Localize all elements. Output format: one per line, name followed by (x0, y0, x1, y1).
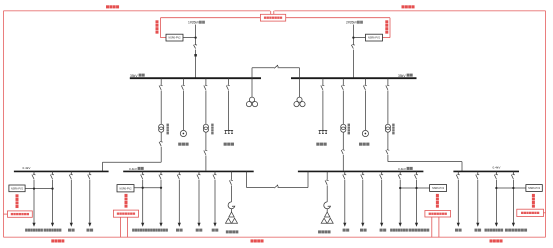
wire relay U1 to line (183, 37, 196, 39)
wire fiber switch to left relay (161, 18, 261, 38)
bus 0.4kV far-right panel (453, 170, 519, 172)
transformer T4 (385, 124, 390, 132)
wire relay U6 to feeders (496, 187, 526, 189)
label 3#LV compensation (132, 229, 150, 232)
wire fiber switch far-right to ring (544, 212, 546, 214)
label capacitor (bus I) (224, 143, 234, 146)
arrow far-right x=477.8 (476, 223, 479, 227)
fiber switch box far-left (8, 211, 33, 217)
arrow 0.4kV-II x=400.2 (399, 223, 402, 227)
feeder wire far-right x=496.4 (495, 171, 497, 223)
bus tie disconnector (274, 65, 278, 68)
feeder T1 wire upper (160, 78, 162, 124)
disconnector DC-panel left (229, 180, 233, 185)
node incoming1/relay junction (194, 36, 196, 38)
arrow far-right x=513.4 (512, 223, 515, 227)
svg-text:2#35kV: 2#35kV (346, 21, 358, 25)
feeder wire DC-panel left (231, 171, 233, 202)
label outgoing FR-1 (455, 229, 462, 232)
PT stem bus II (299, 78, 301, 97)
disconnector 0.4kV-II x=344.8 (343, 174, 347, 179)
wire fiber switch to right relay (286, 18, 390, 38)
feeder PT-cabinet wire (bus I) (182, 78, 184, 130)
label fiber left drop (vertical) (156, 20, 159, 33)
disconnector 0.4kV-II x=416.5 (414, 174, 418, 179)
arrow 0.4kV-II x=416.5 (415, 223, 418, 227)
0.4kV tie disconnector (274, 185, 278, 188)
wire relay U2 to line (353, 37, 365, 39)
bus 0.4kV II (298, 170, 424, 172)
disconnector PT-cabinet (bus II) (363, 85, 367, 90)
label fiber-ring top-left (106, 5, 119, 8)
disconnector far-left out (88, 174, 92, 179)
svg-text:0.4kV: 0.4kV (129, 167, 138, 171)
label bus 35kV II (398, 74, 413, 78)
svg-text:NSR6-PV2: NSR6-PV2 (11, 187, 24, 190)
label fiber drop U3 (vertical) (16, 194, 19, 208)
PT stem bus I (251, 78, 253, 97)
label fiber drop U5 (vertical) (436, 194, 439, 208)
feeder T3 wire upper (342, 78, 344, 124)
disconnector 0.4kV-II x=400.2 (398, 174, 402, 179)
PT (three-winding) bus I (246, 97, 257, 107)
feeder PT-cabinet wire (bus II) (364, 78, 366, 130)
node U3-feeder2 (51, 187, 53, 189)
disconnector 0.4kV-II x=362.8 (361, 174, 365, 179)
incoming line 1 wire (195, 25, 197, 79)
zigzag winding symbol left (226, 212, 238, 223)
bus tie riser left (251, 68, 253, 79)
arrow far-left out (70, 223, 73, 227)
label bus 0.4kV II (398, 167, 413, 171)
inductor curl DC-panel left (228, 202, 235, 209)
label outgoing far-left 1 (68, 229, 75, 232)
disconnector far-right x=513.4 (511, 174, 515, 179)
wire T3 lower + disconnector (341, 132, 345, 170)
label fiber right drop (vertical) (385, 20, 388, 33)
relay U2 incoming 2 (366, 34, 383, 41)
relay U1 incoming 1 (166, 34, 183, 41)
label capacitor (bus II) (316, 143, 326, 146)
feeder wire 0.4kV-I x=179.3 (178, 171, 180, 223)
wire T1 jog to 0.4kV panel bus (103, 162, 162, 171)
disconnector far-right x=477.8 (476, 174, 480, 179)
arrow far-left comp2 (51, 223, 54, 227)
label 1#35kV incoming (188, 21, 205, 25)
label 7#LV compensation (484, 229, 503, 232)
disconnector 0.4kV-I x=199.0 (197, 174, 201, 179)
svg-text:NSR6-PV2: NSR6-PV2 (120, 187, 133, 190)
inductor curl DC-panel right (324, 202, 331, 209)
wire fiber switch far-left to ring (4, 213, 8, 215)
0.4kV tie riser left (246, 171, 248, 187)
node U4-feeder1 (142, 187, 144, 189)
disconnector T3 (341, 85, 345, 90)
bus 35kV I (130, 77, 261, 79)
disconnector capacitor (bus II) (321, 85, 325, 90)
label DC panel right (318, 230, 331, 233)
label 2#LV compensation (44, 229, 62, 232)
feeder wire 0.4kV-II x=400.2 (399, 171, 401, 223)
feeder wire 0.4kV-I x=199.0 (198, 171, 200, 223)
svg-text:NSR6-PV2: NSR6-PV2 (432, 187, 445, 190)
svg-text:35kV: 35kV (130, 74, 138, 78)
disconnector 0.4kV-II x=381.7 (380, 174, 384, 179)
disconnector PT-cabinet (bus I) (181, 85, 185, 90)
arrow 0.4kV-I x=161.0 (159, 223, 162, 227)
disconnector 0.4kV-I x=179.3 (177, 174, 181, 179)
label outgoing I-3 (212, 229, 219, 232)
fiber-ring left line (3, 11, 5, 237)
feeder wire DC-panel right (326, 171, 328, 202)
arrow far-left out (88, 223, 91, 227)
relay U3 far-left panel (9, 185, 25, 192)
transformer T3 (341, 124, 346, 132)
label 2#35kV incoming (346, 21, 363, 25)
label T2 (vertical) (211, 124, 213, 135)
PT (three-winding) bus II (294, 97, 305, 107)
svg-text:NSR6-PV2: NSR6-PV2 (169, 37, 182, 40)
feeder wire 0.4kV-II x=381.7 (381, 171, 383, 223)
label fiber-ring bottom-left (51, 239, 64, 242)
arrow far-left comp1 (32, 223, 35, 227)
feeder wire 0.4kV-II x=362.8 (362, 171, 364, 223)
node U5-feeder1 (399, 187, 401, 189)
svg-text:35kV: 35kV (398, 74, 406, 78)
transformer T2 (203, 124, 208, 132)
transformer T1 (159, 124, 164, 132)
arrow 0.4kV-II x=344.8 (343, 223, 346, 227)
label outgoing FR-2 (475, 229, 482, 232)
label fiber-ring bottom-middle (251, 239, 264, 242)
label 5#LV compensation (390, 229, 408, 232)
label outgoing II-3 (380, 229, 387, 232)
bus 0.4kV far-left panel (14, 170, 109, 172)
wire T2 lower + disconnector (204, 132, 208, 170)
label bus 35kV I (130, 74, 145, 78)
arrow 0.4kV-I x=179.3 (178, 223, 181, 227)
capacitor bank symbol (bus II) (319, 130, 328, 133)
label outgoing I-1 (176, 229, 183, 232)
feeder wire far-left comp1 x=34.0 (33, 171, 35, 223)
node U4-feeder2 (160, 187, 162, 189)
fiber switch box far-right (517, 209, 544, 216)
voltage transformer symbol (bus II) (362, 130, 368, 136)
relay U6 far-right panel (526, 185, 542, 192)
svg-text:0.4kV: 0.4kV (23, 166, 32, 170)
label fiber-ring top-right (402, 5, 415, 8)
node U5-feeder2 (415, 187, 417, 189)
feeder T4 wire upper (387, 78, 389, 124)
arrow 0.4kV-I x=215.0 (213, 223, 216, 227)
arrow 0.4kV-I x=142.7 (141, 223, 144, 227)
label 0.4kV far-left (23, 166, 32, 170)
disconnector capacitor (bus I) (226, 85, 230, 90)
label outgoing far-left 2 (87, 229, 94, 232)
wire relay U4 to feeders (134, 187, 161, 189)
label 0.4kV far-right (493, 165, 502, 169)
0.4kV tie riser right (307, 171, 309, 187)
breaker QF1 incoming 1 (194, 54, 197, 57)
fiber switch box 0.4kV II (425, 211, 451, 218)
node incoming2/relay junction (352, 36, 354, 38)
wire T4 lower + disconnector (386, 132, 390, 161)
capacitor bank symbol (bus I) (225, 130, 234, 133)
disconnector T1 (159, 85, 163, 90)
node U6-feeder2 (512, 187, 514, 189)
label 1#LV compensation (25, 229, 43, 232)
label T3 (vertical) (348, 124, 350, 135)
incoming line 2 wire (352, 25, 354, 79)
feeder wire 0.4kV-I x=215.0 (214, 171, 216, 223)
svg-text:NSR6-PV2: NSR6-PV2 (528, 187, 541, 190)
wire curl to winding right (326, 209, 328, 212)
wire T1 lower + disconnector (159, 132, 163, 162)
feeder wire far-right x=477.8 (477, 171, 479, 223)
arrow far-right x=496.4 (495, 223, 498, 227)
feeder capacitor wire (bus I) (227, 78, 229, 130)
arrow far-right x=458.3 (457, 223, 460, 227)
bus tie horizontal (252, 67, 300, 69)
disconnector T2 (204, 85, 208, 90)
label fiber-ring bottom-right (490, 239, 503, 242)
disconnector far-left comp1 (32, 174, 36, 179)
disconnector DC-panel right (325, 180, 329, 185)
wire fiber switch I to ring (two drops) (120, 217, 127, 237)
fiber-ring top line (4, 10, 546, 12)
feeder wire 0.4kV-II x=416.5 (416, 171, 418, 223)
disconnector far-right x=496.4 (494, 174, 498, 179)
fiber switch box (top center) (260, 14, 285, 21)
feeder wire far-left comp2 x=52.5 (52, 171, 54, 223)
label outgoing I-2 (196, 229, 203, 232)
wire relay U3 to feeders (25, 188, 52, 190)
svg-text:0.4kV: 0.4kV (493, 165, 502, 169)
bus 35kV II (291, 77, 417, 79)
feeder T2 wire upper (205, 78, 207, 124)
arrow 0.4kV-II x=362.8 (361, 223, 364, 227)
bus tie riser right (299, 68, 301, 79)
disconnector T4 (386, 85, 390, 90)
wire curl to winding left (231, 209, 233, 212)
feeder wire far-right x=458.3 (457, 171, 459, 223)
feeder wire 0.4kV-I x=161.0 (160, 171, 162, 223)
svg-text:NSR6-PV2: NSR6-PV2 (368, 37, 381, 40)
label T4 (vertical) (392, 124, 394, 135)
label T1 (vertical) (167, 124, 169, 135)
label PT-cabinet (bus I) (178, 143, 188, 146)
0.4kV tie horizontal (247, 187, 309, 189)
disconnector 0.4kV-I x=161.0 (159, 174, 163, 179)
disconnector far-left comp2 (50, 174, 54, 179)
zigzag winding symbol right (321, 212, 333, 223)
feeder wire 0.4kV-II x=344.8 (344, 171, 346, 223)
relay U4 0.4kV I (117, 185, 134, 192)
label 8#LV compensation (505, 229, 527, 232)
node U3-feeder1 (33, 187, 35, 189)
feeder wire far-left out x=71.3 (70, 171, 72, 223)
relay U5 0.4kV II (430, 185, 447, 192)
label PT-cabinet (bus II) (359, 143, 369, 146)
label outgoing II-1 (343, 229, 350, 232)
svg-text:0.4kV: 0.4kV (398, 167, 407, 171)
bus 0.4kV I (123, 170, 254, 172)
disconnector QS2 incoming 2 (351, 44, 355, 48)
node U6-feeder1 (495, 187, 497, 189)
wire relay U5 to feeders (400, 187, 429, 189)
label DC panel left (226, 230, 238, 233)
label 4#LV compensation (150, 229, 168, 232)
fiber-ring bottom line (4, 236, 546, 238)
wire fiber switch II to ring (two drops) (432, 217, 439, 237)
disconnector far-left out (69, 174, 73, 179)
disconnector 0.4kV-I x=215.0 (213, 174, 217, 179)
label fiber drop U6 (vertical) (532, 194, 535, 208)
wire T4 jog to 0.4kV right panel bus (388, 162, 462, 172)
arrow 0.4kV-II x=381.7 (380, 223, 383, 227)
label outgoing II-2 (360, 229, 367, 232)
disconnector far-right x=458.3 (456, 174, 460, 179)
feeder wire far-left out x=89.8 (89, 171, 91, 223)
arrow 0.4kV-I x=199.0 (197, 223, 200, 227)
fiber-ring right line (545, 11, 547, 237)
svg-text:1#35kV: 1#35kV (188, 21, 200, 25)
wire fiber switch to ring (two risers) (271, 11, 274, 15)
fiber switch box 0.4kV I (113, 210, 138, 217)
feeder capacitor wire (bus II) (322, 78, 324, 130)
disconnector 0.4kV-I x=142.7 (141, 174, 145, 179)
voltage transformer symbol (bus I) (180, 130, 186, 136)
label 6#LV compensation (409, 229, 430, 232)
disconnector QS1 incoming 1 (194, 44, 198, 48)
label bus 0.4kV I (129, 167, 144, 171)
label fiber drop U4 (vertical) (125, 194, 128, 208)
feeder wire 0.4kV-I x=142.7 (142, 171, 144, 223)
feeder wire far-right x=513.4 (512, 171, 514, 223)
